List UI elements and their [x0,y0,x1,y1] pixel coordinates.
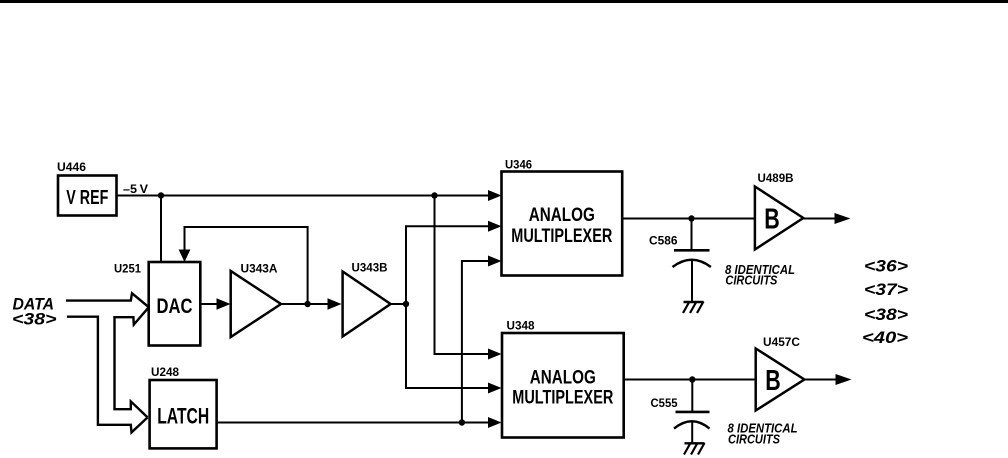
DAC U251 [149,262,201,346]
wire U346 output to buffer U489B [622,218,755,220]
wire vertical bus from U346 input 2 down to U348 input 2 [406,226,490,388]
op-amp U343B [343,272,391,337]
capacitor C586 [673,219,711,303]
wire U343B output to junction [391,303,406,305]
latch U248 [150,380,217,448]
svg-text:U343A: U343A [241,262,278,276]
node junction at U343B output [403,301,409,307]
svg-text:<38>: <38> [12,311,57,329]
wire data bus top edge with open arrow into DAC [66,293,149,307]
svg-text:–5 V: –5 V [123,182,148,196]
arrowhead into U343A [217,298,231,309]
svg-text:U248: U248 [151,365,179,379]
wire -5V down to DAC top [160,196,162,263]
wire from -5V line down and right to U348 input 1 [435,196,491,355]
svg-text:<38>: <38> [864,306,908,324]
svg-text:U348: U348 [507,318,535,332]
node junction on -5V line at DAC branch [158,192,164,198]
svg-text:C555: C555 [651,396,678,410]
svg-text:DAC: DAC [157,294,193,318]
svg-text:LATCH: LATCH [157,404,209,429]
wire LATCH output to U348 input 3 [217,422,490,424]
arrowhead down into DAC [179,250,191,263]
node junction at C555 [689,376,695,382]
op-amp U343A [231,271,281,337]
arrowhead into U348 pin 3 [488,417,502,428]
svg-text:<36>: <36> [864,257,908,275]
svg-text:U446: U446 [57,160,86,174]
svg-text:U346: U346 [505,157,532,171]
arrowhead into U346 pin 2 [488,221,502,232]
wire data bus inner edge from DAC arrow down to LATCH open arrow top [115,307,149,417]
svg-text:C586: C586 [649,233,678,247]
svg-text:CIRCUITS: CIRCUITS [728,432,780,447]
svg-text:MULTIPLEXER: MULTIPLEXER [511,226,612,247]
wire U348 output to buffer U457C [624,379,756,381]
svg-text:MULTIPLEXER: MULTIPLEXER [512,388,613,409]
wire vertical bus from latch output junction up to U346 input 3 [462,261,490,423]
arrowhead output top channel [835,213,851,224]
svg-text:B: B [765,365,781,397]
svg-text:U489B: U489B [758,171,794,185]
svg-text:V REF: V REF [66,187,108,209]
wire U343A output to U343B [281,303,330,305]
svg-text:U457C: U457C [763,335,800,349]
node junction on latch output line [459,419,465,425]
arrowhead into U348 pin 2 [488,383,502,394]
arrowhead into U346 pin 1 [488,190,502,201]
voltage reference U446 [58,176,117,216]
buffer amplifier U457C [756,349,805,411]
svg-text:U251: U251 [114,262,141,276]
svg-text:<37>: <37> [864,281,908,299]
svg-text:ANALOG: ANALOG [529,205,595,226]
ground below C555 [684,443,705,455]
svg-text:CIRCUITS: CIRCUITS [725,273,777,288]
wire DAC output to U343A [200,303,219,305]
node junction at C586 [688,215,694,221]
wire feedback from U343A output up and into DAC top [185,227,308,304]
wire U457C output [804,379,838,381]
ground below C586 [683,302,704,314]
analog multiplexer U348 [502,333,624,438]
wire -5V horizontal from V REF to U346 input 1 [117,195,491,197]
svg-text:ANALOG: ANALOG [530,368,596,389]
analog multiplexer U346 [502,172,623,276]
buffer amplifier U489B [755,187,803,250]
arrowhead into U346 pin 3 [488,256,502,267]
wire U489B output [803,218,838,220]
arrowhead into U343B [328,298,342,309]
svg-text:B: B [764,204,780,236]
note 8 identical circuits (top) [725,262,795,288]
node junction on -5V line at U348 branch [431,192,437,198]
node junction at U343A output [304,301,310,307]
capacitor C555 [674,380,710,444]
svg-text:<40>: <40> [862,329,908,347]
svg-text:U343B: U343B [352,260,388,274]
arrowhead output bottom channel [836,374,852,385]
arrowhead into U348 pin 1 [488,349,502,360]
wire data bus outer edge from <38> down to LATCH open arrow bottom [67,317,148,433]
note 8 identical circuits (bottom) [728,421,798,447]
